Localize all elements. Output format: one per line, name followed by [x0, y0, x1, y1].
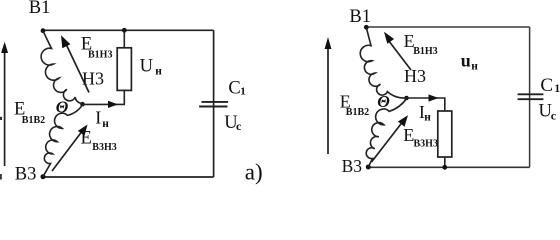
- scan artifact mark at left edge (upper): [0, 117, 2, 120]
- vector arrow E B1B2 (left vertical): [1, 42, 8, 166]
- svg-text:Θ: Θ: [377, 92, 390, 111]
- svg-text:н: н: [471, 60, 478, 72]
- svg-text:В1В2: В1В2: [346, 107, 369, 118]
- svg-text:н: н: [424, 112, 431, 124]
- label E B3H3: [403, 125, 438, 150]
- label C1: [228, 79, 245, 99]
- node H3: [404, 96, 409, 101]
- svg-text:c: c: [551, 108, 557, 122]
- wire top left: B1 node to top-right corner: [43, 29, 214, 31]
- label I н: [95, 107, 109, 130]
- label theta angle: [56, 97, 69, 116]
- label I н: [419, 102, 431, 124]
- winding B1-H3 (coil): [360, 28, 406, 99]
- winding B1-H3 (coil): [41, 31, 82, 104]
- capacitor C1 plates: [199, 102, 228, 107]
- svg-text:н: н: [102, 118, 109, 130]
- node H3: [80, 102, 85, 107]
- svg-text:B1: B1: [349, 7, 371, 27]
- winding H3-B3 (coil): [366, 99, 406, 168]
- svg-text:В1В2: В1В2: [22, 115, 45, 126]
- svg-text:U: U: [140, 56, 153, 76]
- node B1: [364, 25, 369, 30]
- label B1: [349, 7, 371, 27]
- junction node resistor/bottom wire: [442, 165, 447, 170]
- svg-text:I: I: [95, 107, 101, 127]
- svg-text:C: C: [228, 79, 240, 99]
- svg-text:H3: H3: [82, 69, 104, 89]
- svg-text:H3: H3: [404, 66, 426, 86]
- svg-text:c: c: [236, 119, 242, 133]
- svg-text:B1: B1: [29, 0, 51, 18]
- label E B1B2: [340, 91, 369, 118]
- wire resistor bottom to bottom wire: [444, 157, 446, 167]
- svg-text:B3: B3: [342, 156, 363, 176]
- label u н: [461, 51, 479, 73]
- svg-text:В1Н3: В1Н3: [88, 50, 112, 61]
- label H3: [404, 66, 426, 86]
- svg-text:В3Н3: В3Н3: [92, 142, 116, 153]
- label E B1H3: [81, 34, 113, 60]
- vector arrow E B1B2 (left vertical): [325, 37, 332, 154]
- svg-text:a): a): [245, 159, 263, 184]
- label B1: [29, 0, 51, 18]
- svg-text:1: 1: [554, 83, 560, 95]
- resistor Uн (load): [117, 48, 131, 91]
- resistor uн (load): [438, 111, 452, 157]
- label U c: [224, 113, 242, 133]
- wire right side vertical (through capacitor C1): [213, 30, 215, 177]
- vector arrow E B1H3: [61, 35, 89, 92]
- label E B1B2: [14, 100, 45, 127]
- label B3: [342, 156, 363, 176]
- node B3: [41, 174, 46, 179]
- svg-text:u: u: [461, 51, 471, 71]
- node B3: [366, 165, 371, 170]
- svg-text:B3: B3: [15, 165, 37, 185]
- label H3: [82, 69, 104, 89]
- svg-text:Θ: Θ: [56, 97, 69, 116]
- svg-text:E: E: [81, 129, 92, 149]
- winding H3-B3 (coil): [43, 105, 83, 177]
- current arrow Iн (arrowhead on wire): [429, 94, 439, 101]
- wire junction to resistor top: [123, 30, 125, 48]
- wire H3 to resistor top (with corner): [407, 98, 445, 111]
- label theta angle: [377, 92, 390, 111]
- scan artifact mark at left edge (lower): [0, 174, 2, 180]
- wire bottom: B3 node to bottom-right corner: [43, 176, 214, 178]
- label C1: [540, 75, 560, 96]
- label a): [245, 159, 263, 184]
- svg-text:н: н: [155, 66, 162, 78]
- wire resistor bottom to H3 node (with corner): [83, 90, 125, 104]
- vector arrow E B3H3: [372, 115, 409, 162]
- label U c: [539, 101, 557, 122]
- wire top: B1 node to top-right corner: [366, 26, 530, 28]
- label B3: [15, 165, 37, 185]
- junction node on top wire above resistor: [122, 28, 127, 33]
- wire right side vertical (through capacitor C1): [529, 27, 531, 167]
- svg-text:В1Н3: В1Н3: [413, 46, 437, 57]
- vector arrow E B1H3: [384, 32, 411, 70]
- svg-text:В3Н3: В3Н3: [414, 138, 438, 149]
- capacitor C1 plates: [518, 94, 544, 99]
- label U н: [140, 56, 163, 77]
- svg-text:C: C: [540, 75, 553, 96]
- wire bottom: B3 node to bottom-right corner: [368, 166, 530, 168]
- label E B3H3: [81, 129, 117, 154]
- node B1: [41, 28, 46, 33]
- vector arrow E B3H3: [52, 125, 88, 172]
- svg-text:1: 1: [240, 86, 246, 98]
- current arrow Iн (arrowhead on wire): [108, 101, 118, 108]
- label E B1H3: [404, 31, 438, 57]
